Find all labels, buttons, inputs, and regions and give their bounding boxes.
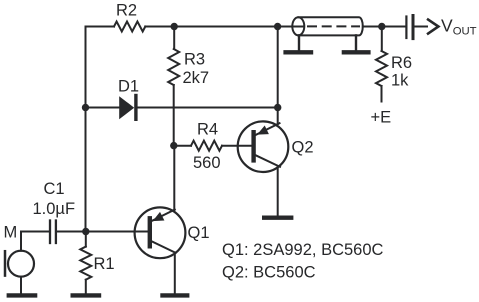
svg-text:Q1: 2SA992, BC560C: Q1: 2SA992, BC560C [222, 241, 384, 259]
wire into tube [278, 26, 304, 28]
svg-text:R4: R4 [197, 120, 218, 138]
wire D1 to Q2 emitter column [138, 107, 278, 109]
ground tube right support [344, 50, 369, 54]
svg-text:Q2: BC560C: Q2: BC560C [222, 264, 316, 282]
node left-rail/D1 junction [82, 104, 89, 111]
capacitor C1 [33, 180, 76, 243]
svg-text:560: 560 [193, 154, 221, 172]
svg-text:1.0µF: 1.0µF [33, 200, 76, 218]
ground R1 [73, 293, 99, 297]
resistor R1 [80, 232, 114, 294]
capacitor output coupling [406, 16, 413, 39]
wire mic to C1 [21, 232, 49, 251]
node top shield-left junction [274, 23, 281, 30]
resistor R6 [376, 27, 412, 102]
node output junction [378, 23, 385, 30]
wire top row left [86, 26, 115, 28]
svg-text:R3: R3 [184, 51, 205, 69]
svg-text:M: M [4, 224, 18, 242]
svg-text:Q1: Q1 [188, 224, 210, 242]
wire tube left support leg [298, 35, 300, 50]
wire tube to node [363, 26, 382, 28]
svg-text:D1: D1 [118, 78, 139, 96]
svg-text:C1: C1 [44, 180, 65, 198]
wire node to R4 [174, 145, 191, 147]
svg-text:+E: +E [371, 109, 392, 127]
node D1/emitter-column junction [274, 104, 281, 111]
svg-text:1k: 1k [391, 72, 409, 90]
ground Q1 [163, 293, 188, 297]
wire R4 to Q2 base [222, 145, 252, 147]
wire C1 to node [57, 231, 86, 233]
wire Q1 collector down [174, 253, 176, 293]
wire Q2 collector down [277, 167, 279, 215]
resistor R4 [191, 120, 222, 172]
svg-text:R6: R6 [391, 54, 412, 72]
ground Q2 [264, 215, 291, 219]
node R3/R4/Q1-emitter junction [170, 142, 177, 149]
svg-text:R1: R1 [94, 255, 115, 273]
node R2/R3 junction [171, 23, 178, 30]
microphone M [4, 224, 35, 277]
svg-text:Q2: Q2 [292, 139, 314, 157]
shielded tube (cylinder) [292, 17, 362, 35]
wire node to C2 [382, 26, 406, 28]
diode D1 [118, 78, 139, 120]
resistor R3 [168, 27, 209, 146]
wire C2 to arrow [415, 26, 427, 28]
wire rail to D1 [86, 107, 120, 109]
wire tube right support leg [355, 35, 357, 50]
svg-text:R2: R2 [116, 2, 137, 20]
wire left rail [85, 27, 87, 232]
wire mic to ground [20, 277, 22, 294]
svg-text:2k7: 2k7 [183, 69, 210, 87]
ground tube left support [286, 50, 311, 54]
ground microphone [9, 293, 35, 297]
arrow output [427, 19, 438, 35]
wire Q1 emitter up to node [173, 146, 175, 210]
wire R2 to node [145, 26, 174, 28]
wire Q2 emitter column [277, 27, 279, 125]
svg-text:VOUT: VOUT [441, 16, 477, 38]
transistor Q1 [135, 207, 210, 258]
resistor R2 [114, 22, 145, 32]
wire node to Q1 base [86, 231, 148, 233]
transistor Q2 [238, 121, 314, 172]
node C1/R1/Q1-base junction [82, 228, 89, 235]
wire top row middle [174, 26, 277, 28]
